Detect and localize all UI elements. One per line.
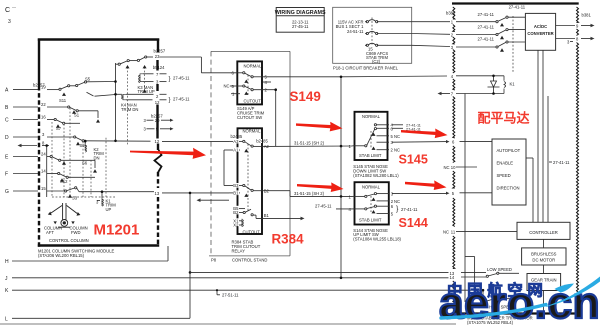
svg-text:NC: NC <box>394 134 400 139</box>
svg-text:27-41-11: 27-41-11 <box>478 37 495 42</box>
svg-text:S11: S11 <box>59 98 67 103</box>
AC/DC converter box <box>525 13 555 50</box>
svg-text:NORMAL: NORMAL <box>362 185 381 190</box>
svg-text:S144: S144 <box>399 216 428 230</box>
wire row C switch S7 <box>47 119 54 121</box>
svg-text:S6: S6 <box>82 161 88 166</box>
svg-text:STAB LIMIT: STAB LIMIT <box>359 153 382 158</box>
svg-text:S145: S145 <box>399 152 428 166</box>
wire pin12 from M1201 to R384 A3 <box>162 140 229 142</box>
wire row F switch S12 <box>47 173 58 175</box>
svg-text:AUTOPILOT: AUTOPILOT <box>497 148 521 153</box>
svg-text:}: } <box>169 76 171 82</box>
wire with left arrow into R384 B5 <box>199 199 229 201</box>
pin labels on left border <box>33 82 46 191</box>
svg-text:DC MOTOR: DC MOTOR <box>532 257 555 262</box>
corner mark C3 top-left <box>5 4 16 25</box>
arrow to pin 5 <box>405 180 447 190</box>
arrow to S145 <box>296 122 343 132</box>
vertical link at 115.5 <box>115 63 117 141</box>
svg-text:11: 11 <box>451 230 456 235</box>
autopilot enable box <box>492 139 526 205</box>
svg-text:AC/DC: AC/DC <box>534 24 547 29</box>
svg-text:27-45-11: 27-45-11 <box>173 75 190 80</box>
svg-text:S5: S5 <box>85 76 91 81</box>
relay K1 coil and diode <box>456 76 506 94</box>
wire A <box>13 89 38 91</box>
wire G <box>13 190 38 192</box>
svg-text:b381: b381 <box>446 11 456 16</box>
dashed linkage <box>247 144 249 211</box>
svg-text:B1: B1 <box>264 213 270 218</box>
arrows into pins 6 and 5 <box>446 140 450 143</box>
wire row G switch S3 long row to pin 13 <box>47 190 65 192</box>
svg-text:S149: S149 <box>290 89 321 104</box>
svg-text:b381: b381 <box>582 13 592 18</box>
svg-text:F: F <box>5 172 8 178</box>
svg-text:G: G <box>5 189 9 195</box>
svg-text:CONTROL COLUMN: CONTROL COLUMN <box>49 238 89 243</box>
svg-text:BRUSHLESS: BRUSHLESS <box>531 251 557 256</box>
svg-text:LOW SPEED: LOW SPEED <box>487 267 512 272</box>
K1 relay contact rows and AC/DC converter feeds <box>456 16 525 72</box>
svg-text:P18-1 CIRCUIT BREAKER PANEL: P18-1 CIRCUIT BREAKER PANEL <box>333 65 399 70</box>
svg-text:C: C <box>5 7 10 14</box>
wire pin23 to S149 pin6 <box>201 57 236 73</box>
svg-text:27-51-11: 27-51-11 <box>222 293 239 298</box>
caption P8 control stand <box>211 257 267 262</box>
caption M1201 module <box>38 248 115 258</box>
svg-text:NC: NC <box>443 230 449 235</box>
circuit breaker C869 symbols <box>365 18 412 47</box>
interior wires and switches <box>42 56 201 206</box>
svg-text:—: — <box>12 4 16 9</box>
S149 pin numbers <box>224 71 268 97</box>
gear train box <box>527 274 561 291</box>
svg-text:27-45-11: 27-45-11 <box>173 96 190 101</box>
svg-text:DN: DN <box>94 155 100 160</box>
svg-text:P8: P8 <box>211 257 217 262</box>
breaker 1 <box>365 20 379 22</box>
svg-text:H: H <box>5 259 9 265</box>
connector pin labels left bar <box>443 11 456 280</box>
svg-text:NORMAL: NORMAL <box>362 114 381 119</box>
svg-text:12: 12 <box>155 139 160 144</box>
caption P18-1 circuit breaker panel <box>333 65 399 70</box>
svg-text:CONVERTER: CONVERTER <box>527 31 553 36</box>
svg-text:27-41-11: 27-41-11 <box>478 25 495 30</box>
caption M1639 stabilizer trim motor <box>467 316 533 326</box>
svg-text:C: C <box>5 118 9 124</box>
svg-text:NORMAL: NORMAL <box>243 129 262 134</box>
bracket 27-45-11 for pins 2,12 <box>169 96 191 103</box>
node dots on bus <box>340 76 343 280</box>
wire D <box>13 136 38 138</box>
pin labels on right border <box>144 49 166 196</box>
high speed switch <box>483 290 519 303</box>
pin 20 / 9 arrow stubs <box>147 120 172 129</box>
wire F <box>13 173 38 175</box>
svg-text:TRIM DN: TRIM DN <box>121 107 138 112</box>
svg-text:UP: UP <box>106 207 112 212</box>
svg-text:3: 3 <box>8 19 11 25</box>
caption S144 <box>353 228 401 242</box>
svg-text:12: 12 <box>155 100 160 105</box>
svg-text:CONTROL STAND: CONTROL STAND <box>232 257 267 262</box>
connector b381 right bar labels <box>576 13 591 42</box>
vertical feed bus x341 <box>340 77 342 278</box>
svg-text:24-51-11: 24-51-11 <box>347 29 364 34</box>
K1 trim up coil below row G <box>101 192 103 198</box>
converter outputs to pins 9 and 8 <box>556 26 592 42</box>
svg-text:b5124: b5124 <box>153 65 165 70</box>
svg-text:B1: B1 <box>233 190 239 195</box>
svg-text:16: 16 <box>41 115 46 120</box>
switch S145 stab nose down limit <box>355 112 388 160</box>
svg-text:22: 22 <box>41 102 46 107</box>
connector b381 left bar (zigzag) <box>453 7 455 310</box>
wire row A cascade <box>47 89 59 91</box>
NC stubs pins 10 11 <box>456 166 477 168</box>
mechanical arrows (small triangles) <box>56 65 147 198</box>
svg-text:27-45-11: 27-45-11 <box>292 24 309 29</box>
svg-text:CUTOUT SW: CUTOUT SW <box>237 115 262 120</box>
wire stub 27-51-11 below J <box>217 290 220 295</box>
svg-text:b2485: b2485 <box>256 138 268 143</box>
low speed switch <box>461 272 519 277</box>
switch S144 stab nose up limit <box>355 182 389 224</box>
wire 31-51-15 row A from R384 A2 to S145 pin1 <box>266 77 353 278</box>
upper cascade to pin 23 <box>116 63 119 65</box>
svg-text:}: } <box>169 97 171 103</box>
R384 coil X1 X2 <box>239 220 242 222</box>
vertical wires converter to controller <box>504 50 552 222</box>
wire row B switch S1 <box>47 106 68 108</box>
svg-text:S3: S3 <box>72 195 78 200</box>
svg-text:S1: S1 <box>74 112 80 117</box>
svg-text:S12: S12 <box>60 179 68 184</box>
stabilizer trim motor module M1639 outline <box>452 4 579 314</box>
wire C <box>13 119 38 121</box>
wires 4 and 6 with labels <box>392 124 403 126</box>
svg-text:RELAY: RELAY <box>232 249 246 254</box>
pin 7 wire with left arrow <box>440 93 450 95</box>
svg-text:S9: S9 <box>80 143 86 148</box>
R384 pin labels <box>233 139 262 227</box>
wire row E switch S6 <box>47 156 50 158</box>
svg-text:20: 20 <box>155 118 160 123</box>
svg-text:X2: X2 <box>233 223 239 228</box>
svg-text:(STA1084 WL255 LBL18): (STA1084 WL255 LBL18) <box>353 237 401 242</box>
arrow to S144 <box>297 182 344 192</box>
svg-text:27-45-11: 27-45-11 <box>315 203 332 208</box>
svg-text:14: 14 <box>41 169 46 174</box>
svg-text:D: D <box>5 135 9 141</box>
control stand enclosure P8 <box>209 51 290 256</box>
svg-text:27-41-11: 27-41-11 <box>478 12 495 17</box>
controller left wire <box>456 94 544 303</box>
svg-text:B3: B3 <box>233 183 239 188</box>
wire J <box>12 277 449 279</box>
brushless dc motor box <box>522 248 566 265</box>
svg-text:23: 23 <box>155 54 160 59</box>
svg-text:27-41-11: 27-41-11 <box>553 160 570 165</box>
svg-text:WIRING DIAGRAMS: WIRING DIAGRAMS <box>275 10 326 16</box>
controller box <box>517 222 570 239</box>
svg-text:CUTOUT: CUTOUT <box>244 98 262 103</box>
R384 aux contacts <box>239 208 245 210</box>
wire 13 row from riser to connector pin 13 <box>190 271 449 273</box>
circuit breaker panel P18-1 box <box>333 7 412 63</box>
svg-text:NC: NC <box>444 165 450 170</box>
svg-text:10: 10 <box>451 165 456 170</box>
wire row D switch S9 <box>47 136 74 138</box>
arrow to pin 6 <box>401 129 448 139</box>
svg-text:M1201: M1201 <box>94 221 140 238</box>
wire L riser <box>189 193 191 318</box>
svg-text:A3: A3 <box>233 139 239 144</box>
watermark swoosh airplane <box>441 277 600 319</box>
K4 coil wires pins 2 and 12 <box>116 93 123 95</box>
mechanical linkage dashed verticals <box>52 67 145 197</box>
svg-text:(STA206 WL200 RBL15): (STA206 WL200 RBL15) <box>38 253 85 258</box>
svg-text:b2257: b2257 <box>154 49 166 54</box>
svg-text:STAB LIMIT: STAB LIMIT <box>359 218 382 223</box>
svg-text:NC: NC <box>224 84 230 89</box>
svg-text:(C2): (C2) <box>372 59 381 64</box>
svg-text:27-41-11: 27-41-11 <box>509 4 526 9</box>
svg-text:24: 24 <box>41 152 46 157</box>
control column icon <box>51 203 77 227</box>
diode symbol <box>488 81 500 87</box>
S149 pin2 branch down to R384 A2 row <box>275 90 277 147</box>
svg-text:TRIM UP: TRIM UP <box>138 89 155 94</box>
svg-text:15: 15 <box>41 186 46 191</box>
wire 31-51-15 row B from R384 B2 to S144 pin1 <box>266 190 290 192</box>
node dots on riser at 190 <box>189 192 192 195</box>
dashed linkage inside S149 <box>247 75 249 96</box>
svg-text:NC: NC <box>394 199 400 204</box>
wire pin8 arrow <box>20 145 37 147</box>
svg-text:31-51-15 (SH 2): 31-51-15 (SH 2) <box>294 141 325 146</box>
wiring diagrams reference box <box>276 8 324 33</box>
pin 3 wire to connector pin 5 <box>392 192 447 194</box>
node junction dots M1201 <box>45 80 116 193</box>
wire row 8 to K2 coil <box>42 145 49 147</box>
column switching module M1201 outline <box>38 39 159 247</box>
svg-text:27-41-11: 27-41-11 <box>401 207 418 212</box>
wire bottom rail <box>0 323 456 325</box>
R384 contact A <box>229 140 243 142</box>
wire 27-45-11 into S144 pin 4 <box>336 208 353 210</box>
svg-text:(STA1082 WL280 LBL1): (STA1082 WL280 LBL1) <box>353 173 399 178</box>
connector b381 right bar (zigzag) <box>577 7 579 310</box>
pin 3 wire to connector pin 6 <box>392 141 447 144</box>
autopilot output to controller <box>526 157 533 159</box>
svg-text:ENABLE: ENABLE <box>497 161 514 166</box>
svg-text:FWD: FWD <box>71 230 81 235</box>
svg-text:R384: R384 <box>272 232 305 247</box>
wire L <box>12 317 190 319</box>
R384 contact B <box>238 185 243 187</box>
wire H <box>12 260 168 262</box>
svg-text:DIRECTION: DIRECTION <box>497 186 520 191</box>
svg-text:L: L <box>5 316 8 322</box>
node arrow into pin 8 <box>18 144 22 148</box>
wires into autopilot box pins 6 and 5 <box>460 142 534 223</box>
bracket 27-45-11 for pins 7,3 <box>169 75 191 82</box>
wire labels 31-51-15 <box>294 141 332 209</box>
svg-text:B2: B2 <box>233 210 239 215</box>
svg-text:NORMAL: NORMAL <box>244 63 263 68</box>
svg-text:CUTOUT: CUTOUT <box>243 229 261 234</box>
svg-text:13: 13 <box>155 191 160 196</box>
red annotation arrows <box>130 122 448 192</box>
S149 internal contacts <box>236 72 243 74</box>
watermark aero.cn logo <box>439 279 600 328</box>
svg-text:配平马达: 配平马达 <box>478 111 530 126</box>
svg-text:CONTROLLER: CONTROLLER <box>529 230 558 235</box>
svg-text:SPEED: SPEED <box>497 173 511 178</box>
breaker 3 <box>365 43 379 45</box>
wire pin13 from M1201 to R384 B1 <box>162 192 229 194</box>
caption R384 relay <box>232 240 261 254</box>
S149 A/P cruise trim cutout switch <box>237 61 262 104</box>
K3 coil wires pins 7 and 3 <box>143 73 154 75</box>
svg-text:S7: S7 <box>56 126 62 131</box>
wires breaker panel to connector pins 1 2 3 <box>412 22 450 47</box>
svg-text:aero.cn: aero.cn <box>439 279 600 328</box>
switch name labels <box>56 76 155 211</box>
wire E <box>13 156 38 158</box>
wire K <box>12 289 483 291</box>
svg-text:31-51-15 (SH 2): 31-51-15 (SH 2) <box>294 191 325 196</box>
wire B <box>13 106 38 108</box>
arrow to R384 <box>130 148 206 159</box>
svg-text:AFT: AFT <box>46 230 54 235</box>
caption S145 <box>353 164 399 178</box>
svg-text:19: 19 <box>41 85 46 90</box>
relay R384 stab trim cutout <box>238 128 263 234</box>
break symbol lightning bolt on right border <box>155 150 162 173</box>
svg-text:A1: A1 <box>233 147 239 152</box>
caption S149 <box>237 106 265 120</box>
svg-text:K1: K1 <box>510 82 516 87</box>
breaker 2 <box>365 31 379 33</box>
